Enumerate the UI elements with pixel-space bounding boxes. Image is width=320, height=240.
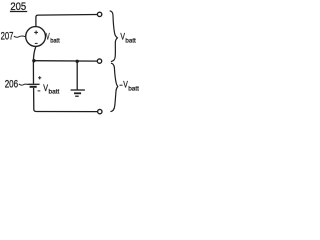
svg-text:206: 206 (5, 79, 18, 91)
battery 206 long plate (28, 83, 40, 85)
Vbatt label (battery) (43, 83, 59, 96)
battery 206 plus (38, 76, 41, 79)
Vbatt label (bottom brace) (123, 80, 139, 93)
svg-text:batt: batt (50, 38, 59, 45)
battery 206 short plate (30, 86, 37, 88)
wire: source bottom to battery top (33, 46, 36, 83)
minus of -Vbatt label (120, 84, 123, 86)
junction node left (32, 59, 35, 62)
wire: battery bottom to bottom terminal (34, 88, 98, 112)
leader squiggle 207 (14, 36, 25, 37)
wire: middle to terminal (34, 60, 98, 62)
voltage source 207 (circle) (26, 27, 46, 47)
svg-text:batt: batt (128, 86, 139, 93)
svg-text:207: 207 (1, 31, 14, 43)
svg-text:batt: batt (125, 37, 135, 44)
label 205 (10, 1, 27, 13)
wire: down to ground (76, 61, 78, 90)
battery 206 minus (38, 90, 41, 92)
Vbatt label (top brace) (120, 31, 135, 44)
ground (71, 90, 85, 96)
terminal bottom (98, 109, 102, 113)
terminal top (97, 12, 101, 16)
Vbatt label (source) (46, 32, 60, 45)
brace Vbatt (top) (110, 11, 118, 62)
leader squiggle 206 (19, 84, 28, 85)
brace -Vbatt (bottom) (110, 63, 117, 111)
terminal middle (97, 59, 101, 63)
wire: source top to terminal (36, 15, 97, 27)
plus sign in source (34, 31, 38, 35)
junction node ground (76, 60, 79, 63)
svg-text:batt: batt (49, 89, 60, 96)
minus sign in source (35, 42, 38, 44)
